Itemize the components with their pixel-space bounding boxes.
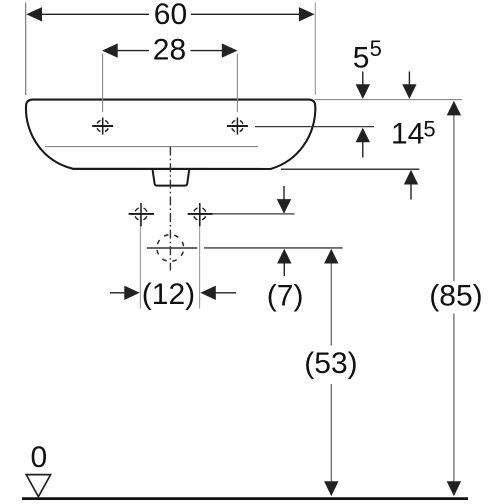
extension line right of dim 28 bbox=[236, 54, 238, 113]
dimension (85) top arrowhead bbox=[447, 101, 461, 116]
svg-text:28: 28 bbox=[153, 33, 186, 66]
extension line right of dim 60 bbox=[314, 3, 316, 96]
extension line left of dim 28 bbox=[102, 54, 104, 113]
dimension 60 left arrowhead bbox=[26, 7, 42, 21]
reference line fixing holes level bbox=[212, 213, 295, 215]
fixing hole left bbox=[129, 203, 154, 226]
dimension 14.5 lower arrow bbox=[410, 183, 412, 200]
floor line bbox=[22, 497, 468, 500]
svg-text:5: 5 bbox=[353, 42, 370, 75]
dimension (7) lower arrow bbox=[283, 263, 285, 276]
svg-text:(7): (7) bbox=[267, 280, 304, 313]
siphon dashed circle bbox=[157, 235, 184, 262]
svg-text:60: 60 bbox=[154, 0, 187, 31]
tap hole right bbox=[227, 118, 248, 135]
reference line D siphon level bbox=[204, 247, 343, 249]
extension line left of dim (12) bbox=[139, 216, 141, 309]
dimension (53) line lower bbox=[330, 384, 332, 482]
basin outline bbox=[26, 100, 315, 169]
dimension (12) left arrow bbox=[110, 292, 126, 294]
drain outlet bbox=[153, 170, 190, 186]
dimension 14.5 upper arrow bbox=[408, 72, 410, 87]
centerline through drain and siphon bbox=[169, 147, 171, 271]
dimension (53) top arrowhead bbox=[324, 249, 338, 264]
basin bottom edge over drain bbox=[73, 168, 271, 170]
dimension (7) upper arrow bbox=[283, 186, 285, 201]
fixing hole right bbox=[188, 203, 213, 226]
dimension 5.5 upper arrow bbox=[362, 72, 364, 87]
reference line C basin bottom level extended right bbox=[281, 168, 419, 170]
dimension 28 left arrowhead bbox=[102, 43, 118, 57]
inner rim line of basin bbox=[45, 146, 258, 148]
svg-text:5: 5 bbox=[423, 117, 435, 142]
dimension (53) line upper bbox=[330, 263, 332, 346]
svg-text:14: 14 bbox=[391, 117, 424, 150]
dimension 5.5 lower arrow bbox=[362, 142, 364, 158]
reference line B tap hole level bbox=[255, 126, 374, 128]
tap hole left bbox=[92, 118, 113, 135]
svg-text:0: 0 bbox=[31, 441, 48, 474]
dimension (12) right arrow bbox=[215, 292, 237, 294]
reference line A top edge extended right bbox=[315, 99, 462, 101]
svg-text:(12): (12) bbox=[142, 278, 195, 311]
dimension (53) bottom arrowhead bbox=[324, 481, 338, 496]
extension line left of dim 60 bbox=[25, 3, 27, 96]
dimension 60 right arrowhead bbox=[299, 7, 315, 21]
dimension (85) bottom arrowhead bbox=[447, 481, 461, 496]
dimension 28 right arrowhead bbox=[222, 43, 238, 57]
dimension (85) line upper bbox=[453, 115, 455, 282]
dimension 60 line bbox=[41, 13, 149, 15]
dimension 28 line bbox=[116, 50, 149, 52]
svg-text:5: 5 bbox=[370, 36, 382, 61]
extension line right of dim (12) bbox=[199, 216, 201, 309]
svg-text:(85): (85) bbox=[429, 280, 482, 313]
dimension (85) line lower bbox=[453, 314, 455, 483]
datum triangle bbox=[26, 475, 50, 497]
siphon horizontal centerline bbox=[147, 247, 197, 249]
svg-text:(53): (53) bbox=[304, 347, 357, 380]
